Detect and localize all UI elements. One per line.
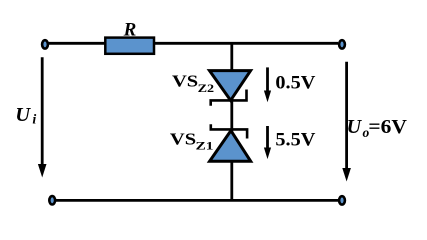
svg-text:R: R bbox=[123, 20, 137, 41]
svg-text:VS: VS bbox=[170, 130, 196, 149]
zener diode VSZ1 cathode bar bbox=[211, 124, 247, 138]
zener diode VSZ2 triangle bbox=[210, 71, 251, 101]
voltage arrow Uo bbox=[345, 62, 348, 169]
svg-text:VS: VS bbox=[172, 71, 198, 90]
terminal top-left bbox=[42, 40, 48, 48]
terminal bottom-right bbox=[339, 196, 345, 204]
zener diode VSZ2 cathode bar bbox=[211, 90, 247, 106]
svg-text:U: U bbox=[15, 104, 31, 126]
wire middle branch vertical bbox=[230, 43, 233, 200]
voltage arrow 0.5V bbox=[266, 67, 269, 92]
wire bottom horizontal bbox=[55, 199, 338, 202]
voltage arrow 5.5V bbox=[266, 126, 269, 149]
voltage arrow Ui bbox=[41, 57, 44, 165]
svg-text:i: i bbox=[32, 112, 36, 127]
zener diode VSZ1 triangle bbox=[210, 131, 251, 162]
wire top horizontal bbox=[48, 42, 338, 45]
svg-text:=6V: =6V bbox=[368, 117, 407, 138]
terminal bottom-left bbox=[49, 196, 55, 204]
svg-text:U: U bbox=[347, 116, 363, 138]
svg-text:Z1: Z1 bbox=[196, 139, 214, 153]
resistor R1 body bbox=[105, 38, 154, 54]
terminal top-right bbox=[339, 40, 345, 48]
svg-text:0.5V: 0.5V bbox=[275, 73, 315, 94]
svg-text:5.5V: 5.5V bbox=[275, 129, 315, 150]
svg-text:Z2: Z2 bbox=[198, 81, 215, 95]
